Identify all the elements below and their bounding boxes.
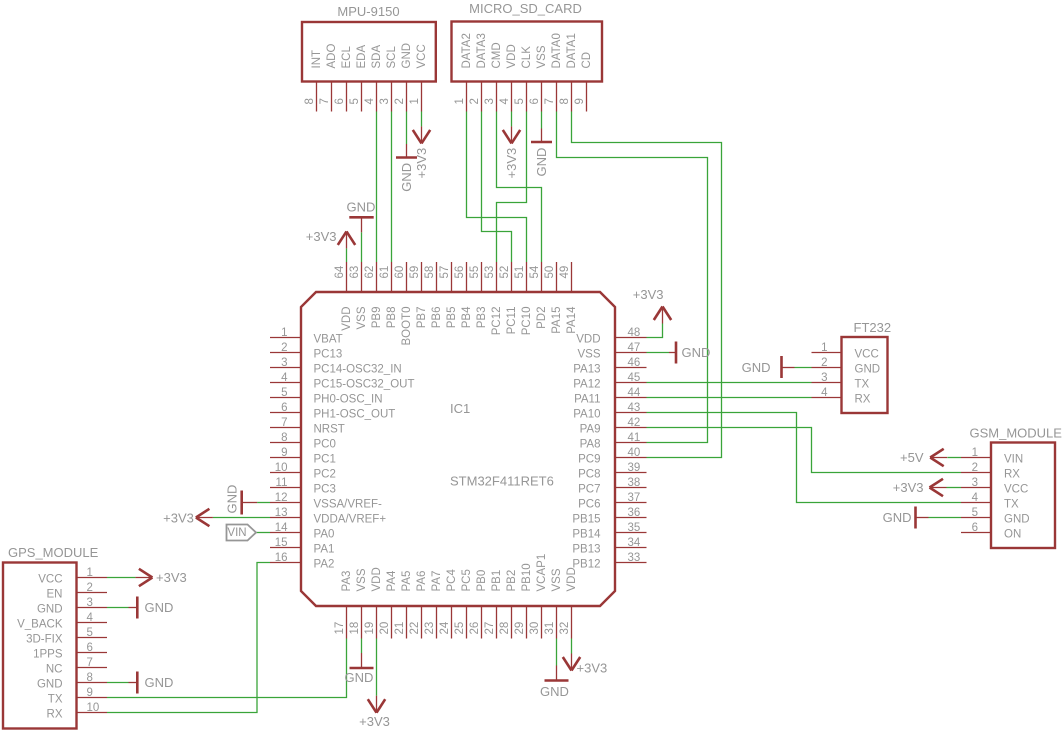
svg-text:GND: GND	[534, 148, 549, 177]
ground GND at IC1 pin63	[347, 200, 376, 233]
svg-text:MPU-9150: MPU-9150	[337, 4, 399, 19]
ground GND at GPS_MODULE pin3	[129, 597, 174, 619]
IC1 pin 27 PB1	[484, 570, 503, 639]
svg-text:41: 41	[628, 432, 641, 444]
svg-text:GSM_MODULE: GSM_MODULE	[970, 426, 1063, 441]
IC1 pin 10 PC2	[270, 462, 336, 481]
svg-text:31: 31	[544, 622, 556, 635]
IC1 pin 39 PC8	[578, 462, 646, 481]
svg-text:PB9: PB9	[371, 307, 383, 329]
svg-text:19: 19	[364, 622, 376, 635]
wire GPS_MODULE pin8 to ground	[107, 682, 129, 684]
svg-text:6: 6	[972, 522, 978, 534]
power +3V3 at IC1 pin13	[163, 509, 213, 526]
svg-text:PA1: PA1	[314, 544, 335, 556]
svg-text:TX: TX	[1004, 499, 1019, 511]
svg-text:6: 6	[87, 642, 93, 654]
IC1 pin 20 PA4	[379, 570, 398, 638]
svg-text:24: 24	[439, 621, 451, 634]
svg-text:GPS_MODULE: GPS_MODULE	[8, 545, 99, 560]
FT232 pin 2 GND	[812, 357, 881, 376]
svg-text:4: 4	[281, 372, 288, 384]
svg-text:4: 4	[499, 98, 511, 105]
svg-text:PA9: PA9	[580, 424, 601, 436]
svg-text:51: 51	[514, 266, 526, 279]
ground GND at IC1 pin12	[225, 485, 258, 515]
svg-text:PB0: PB0	[476, 570, 488, 592]
svg-text:15: 15	[275, 537, 288, 549]
MPU-9150 pin 5 EDA	[349, 45, 368, 112]
wire PA10 IC1 pin43 to GSM_MODULE pin4 TX	[647, 413, 962, 503]
svg-text:PA6: PA6	[416, 571, 428, 592]
svg-text:PC0: PC0	[314, 439, 336, 451]
ground GND at SD pin6	[531, 129, 552, 177]
svg-text:GND: GND	[399, 163, 414, 192]
svg-text:CMD: CMD	[491, 42, 503, 68]
wire PA3 IC1 pin17 to GPS_MODULE pin9 TX	[107, 639, 347, 698]
MICRO_SD_CARD pin 5 CLK	[514, 46, 533, 112]
svg-text:EN: EN	[47, 589, 63, 601]
power +3V3 at IC1 pin48	[633, 287, 671, 324]
IC1 pin 3 PC14-OSC32_IN	[270, 357, 402, 376]
svg-text:GND: GND	[225, 485, 240, 514]
IC1 pin 56 PB4	[454, 262, 473, 328]
svg-text:1: 1	[972, 447, 978, 459]
MICRO_SD_CARD pin 1 DATA2	[454, 33, 473, 111]
svg-text:45: 45	[628, 372, 641, 384]
svg-text:22: 22	[409, 622, 421, 635]
svg-text:PC10: PC10	[521, 307, 533, 336]
wire MPU pin1 to +3V3	[421, 112, 423, 127]
IC1 pin 33 PB12	[572, 552, 646, 571]
IC1 pin 41 PA8	[580, 432, 647, 451]
IC1 pin 34 PB13	[572, 537, 646, 556]
svg-text:NRST: NRST	[314, 424, 345, 436]
IC1 pin 17 PA3	[334, 571, 353, 639]
svg-text:VCC: VCC	[855, 349, 879, 361]
svg-text:TX: TX	[855, 379, 870, 391]
IC1 pin 55 PB3	[469, 262, 488, 328]
svg-text:VDD: VDD	[576, 334, 600, 346]
GPS_MODULE pin 1 VCC	[38, 567, 107, 586]
IC1 pin 52 PC11	[499, 262, 518, 334]
svg-text:RX: RX	[47, 709, 63, 721]
svg-text:PB14: PB14	[572, 529, 601, 541]
svg-text:VDD: VDD	[371, 567, 383, 591]
svg-text:23: 23	[424, 622, 436, 635]
MICRO_SD_CARD pin 4 VDD	[499, 44, 518, 111]
IC1 pin 51 PC10	[514, 262, 533, 335]
svg-text:VSSA/VREF-: VSSA/VREF-	[314, 499, 383, 511]
svg-text:3: 3	[87, 597, 93, 609]
svg-text:PB10: PB10	[521, 563, 533, 591]
svg-text:GND: GND	[145, 600, 174, 615]
node VIN flag at IC1 pin14	[227, 525, 257, 541]
svg-text:8: 8	[304, 98, 316, 104]
svg-text:14: 14	[275, 522, 288, 534]
svg-text:38: 38	[628, 477, 641, 489]
svg-text:GND: GND	[401, 43, 413, 69]
svg-text:VSS: VSS	[536, 45, 548, 68]
svg-text:8: 8	[281, 432, 287, 444]
MICRO_SD_CARD pin 3 CMD	[484, 42, 503, 111]
svg-text:3: 3	[379, 98, 391, 104]
svg-text:49: 49	[559, 266, 571, 279]
svg-text:+3V3: +3V3	[359, 714, 390, 729]
IC1 pin 2 PC13	[270, 342, 342, 361]
svg-text:16: 16	[275, 552, 288, 564]
wire IC1 pin18 to ground	[361, 639, 363, 654]
IC1 pin 40 PC9	[578, 447, 646, 466]
wire DATA3 SD pin2 to IC1 pin52	[482, 112, 512, 263]
svg-text:1: 1	[87, 567, 93, 579]
IC1 pin 43 PA10	[573, 402, 646, 421]
svg-text:1: 1	[409, 98, 421, 104]
svg-text:33: 33	[628, 552, 641, 564]
svg-text:PA14: PA14	[566, 306, 578, 334]
connector MPU-9150 body	[302, 4, 436, 82]
power +3V3 at SD pin4	[503, 126, 520, 178]
svg-text:3: 3	[281, 357, 287, 369]
IC1 pin 7 NRST	[270, 417, 345, 436]
svg-text:+3V3: +3V3	[577, 661, 608, 676]
GPS_MODULE pin 8 GND	[37, 672, 107, 691]
svg-text:PC15-OSC32_OUT: PC15-OSC32_OUT	[314, 379, 415, 391]
svg-text:DATA3: DATA3	[476, 33, 488, 68]
wire PA12 IC1 pin45 to FT232 pin3	[647, 382, 812, 384]
svg-text:PA10: PA10	[573, 409, 600, 421]
IC1 pin 22 PA6	[409, 571, 428, 639]
IC1 pin 58 PB6	[424, 262, 443, 328]
svg-text:PB7: PB7	[416, 307, 428, 329]
svg-text:PC6: PC6	[578, 499, 600, 511]
svg-text:+3V3: +3V3	[504, 148, 519, 179]
IC1 pin 63 VSS	[349, 262, 368, 330]
svg-text:57: 57	[439, 266, 451, 279]
svg-text:20: 20	[379, 622, 391, 635]
svg-text:18: 18	[349, 622, 361, 635]
IC1 pin 14 PA0	[270, 522, 334, 541]
IC1 pin 28 PB2	[499, 570, 518, 639]
svg-text:PC12: PC12	[491, 307, 503, 336]
svg-text:GND: GND	[37, 604, 63, 616]
wire FT232 pin2 to ground	[795, 367, 812, 369]
svg-text:1: 1	[454, 98, 466, 104]
connector GSM_MODULE body	[970, 426, 1063, 549]
svg-text:CLK: CLK	[521, 46, 533, 69]
svg-text:PB5: PB5	[446, 307, 458, 329]
svg-text:PA15: PA15	[551, 307, 563, 334]
svg-text:60: 60	[394, 266, 406, 279]
wire SCL MPU pin3 to IC1 pin61	[391, 112, 393, 263]
svg-text:GND: GND	[682, 345, 711, 360]
svg-text:4: 4	[87, 612, 94, 624]
svg-text:GND: GND	[742, 360, 771, 375]
wire CMD SD pin3 to IC1 pin54	[497, 112, 542, 263]
IC1 pin 1 VBAT	[270, 327, 343, 346]
svg-text:VDD: VDD	[341, 307, 353, 331]
svg-text:5: 5	[281, 387, 287, 399]
GPS_MODULE pin 5 3D-FIX	[26, 627, 107, 646]
svg-text:47: 47	[628, 342, 641, 354]
svg-text:PA13: PA13	[573, 364, 600, 376]
wire GSM_MODULE pin1 to +5V	[947, 457, 961, 459]
IC1 pin 26 PB0	[469, 570, 488, 639]
ground GND at IC1 pin47	[669, 342, 710, 364]
svg-text:58: 58	[424, 266, 436, 279]
IC1 pin 46 PA13	[573, 357, 646, 376]
svg-text:9: 9	[87, 687, 93, 699]
GPS_MODULE pin 10 RX	[47, 702, 107, 721]
svg-text:EDA: EDA	[356, 45, 368, 69]
svg-text:39: 39	[628, 462, 641, 474]
svg-text:PC11: PC11	[506, 307, 518, 335]
wire IC1 pin32 to +3V3	[571, 639, 573, 654]
svg-text:10: 10	[275, 462, 288, 474]
IC1 pin 11 PC3	[270, 477, 336, 496]
svg-text:35: 35	[628, 522, 641, 534]
svg-text:PH0-OSC_IN: PH0-OSC_IN	[314, 394, 383, 406]
svg-text:7: 7	[281, 417, 287, 429]
svg-text:ADO: ADO	[326, 44, 338, 69]
svg-text:DATA2: DATA2	[461, 33, 473, 68]
svg-text:9: 9	[574, 98, 586, 104]
svg-text:PB8: PB8	[386, 307, 398, 329]
power +5V at GSM_MODULE pin1	[900, 449, 947, 466]
svg-text:PC3: PC3	[314, 484, 336, 496]
wire IC1 pin31 to ground	[556, 639, 558, 666]
svg-text:VDDA/VREF+: VDDA/VREF+	[314, 514, 387, 526]
svg-text:PC2: PC2	[314, 469, 336, 481]
svg-text:+3V3: +3V3	[156, 570, 187, 585]
IC1 pin 54 PD2	[529, 262, 548, 329]
ground GND at MPU pin2	[396, 144, 417, 192]
svg-text:55: 55	[469, 266, 481, 279]
svg-text:MICRO_SD_CARD: MICRO_SD_CARD	[469, 1, 582, 16]
svg-text:3D-FIX: 3D-FIX	[26, 634, 63, 646]
connector GPS_MODULE body	[3, 545, 99, 729]
svg-text:PC9: PC9	[578, 454, 600, 466]
FT232 pin 4 RX	[812, 387, 871, 406]
svg-text:VDD: VDD	[566, 567, 578, 591]
svg-text:2: 2	[972, 462, 978, 474]
wire SD pin4 to +3V3	[511, 112, 513, 127]
svg-text:43: 43	[628, 402, 641, 414]
svg-text:V_BACK: V_BACK	[17, 619, 63, 631]
svg-text:40: 40	[628, 447, 641, 459]
svg-text:59: 59	[409, 266, 421, 279]
MICRO_SD_CARD pin 8 DATA1	[559, 33, 578, 111]
svg-text:2: 2	[394, 98, 406, 104]
wire MPU pin2 to ground	[406, 112, 408, 145]
MICRO_SD_CARD pin 6 VSS	[529, 45, 548, 111]
svg-text:36: 36	[628, 507, 641, 519]
GPS_MODULE pin 3 GND	[37, 597, 107, 616]
svg-text:VCAP1: VCAP1	[536, 554, 548, 592]
FT232 pin 1 VCC	[812, 342, 879, 361]
svg-text:PA0: PA0	[314, 529, 335, 541]
GSM_MODULE pin 1 VIN	[961, 447, 1023, 466]
svg-text:50: 50	[544, 266, 556, 279]
IC1 pin 49 PA14	[559, 262, 578, 334]
wire DATA1 SD pin8 to IC1 pin40	[572, 112, 722, 458]
power +3V3 at IC1 pin32	[563, 654, 607, 676]
IC1 pin 25 PC5	[454, 569, 473, 638]
svg-text:PB15: PB15	[572, 514, 600, 526]
wire CLK SD pin5 to IC1 pin53	[497, 112, 527, 263]
IC1 pin 57 PB5	[439, 262, 458, 328]
IC IC1 STM32F411RET6 body	[301, 292, 615, 606]
svg-text:7: 7	[87, 657, 93, 669]
svg-text:37: 37	[628, 492, 641, 504]
power +3V3 at MPU pin1	[413, 126, 430, 178]
svg-text:28: 28	[499, 622, 511, 635]
ground GND at GSM_MODULE pin5	[883, 507, 929, 529]
svg-text:48: 48	[628, 327, 641, 339]
ground GND at IC1 pin31	[540, 666, 569, 700]
IC1 pin 18 VSS	[349, 568, 368, 638]
wire GPS_MODULE pin3 to ground	[107, 607, 129, 609]
MPU-9150 pin 7 ADO	[319, 44, 338, 112]
svg-text:13: 13	[275, 507, 288, 519]
svg-text:63: 63	[349, 266, 361, 279]
svg-text:5: 5	[87, 627, 93, 639]
svg-text:PA7: PA7	[431, 571, 443, 592]
svg-text:PA2: PA2	[314, 559, 335, 571]
svg-text:PC7: PC7	[578, 484, 600, 496]
IC1 pin 53 PC12	[484, 262, 503, 335]
GSM_MODULE pin 3 VCC	[961, 477, 1028, 496]
svg-text:5: 5	[972, 507, 978, 519]
svg-text:+3V3: +3V3	[893, 480, 924, 495]
svg-text:5: 5	[514, 98, 526, 104]
svg-text:5: 5	[349, 98, 361, 104]
GPS_MODULE pin 2 EN	[47, 582, 107, 601]
svg-text:PA3: PA3	[341, 571, 353, 592]
svg-text:1: 1	[821, 342, 827, 354]
svg-text:3: 3	[484, 98, 496, 104]
IC1 pin 30 VCAP1	[529, 554, 548, 639]
connector MICRO_SD_CARD body	[452, 1, 603, 82]
svg-text:GND: GND	[883, 510, 912, 525]
svg-text:VCC: VCC	[416, 44, 428, 68]
power +3V3 at IC1 pin19	[359, 696, 390, 729]
svg-text:4: 4	[972, 492, 979, 504]
wire GPS_MODULE pin1 to +3V3	[107, 577, 135, 579]
svg-text:46: 46	[628, 357, 641, 369]
svg-text:4: 4	[821, 387, 828, 399]
svg-text:56: 56	[454, 266, 466, 279]
IC1 pin 19 VDD	[364, 567, 383, 638]
svg-text:+3V3: +3V3	[633, 287, 664, 302]
connector FT232 body	[842, 320, 892, 413]
GSM_MODULE pin 2 RX	[961, 462, 1020, 481]
svg-text:PC14-OSC32_IN: PC14-OSC32_IN	[314, 364, 402, 376]
power +3V3 at IC1 pin64	[306, 229, 355, 248]
GSM_MODULE pin 5 GND	[961, 507, 1030, 526]
svg-text:PA8: PA8	[580, 439, 601, 451]
GPS_MODULE pin 6 1PPS	[33, 642, 107, 661]
svg-text:+3V3: +3V3	[306, 229, 337, 244]
IC1 pin 45 PA12	[573, 372, 646, 391]
wire IC1 pin14 to VIN	[256, 532, 270, 534]
svg-text:2: 2	[821, 357, 827, 369]
wire IC1 pin64 to +3V3	[346, 248, 348, 262]
svg-text:ON: ON	[1004, 529, 1021, 541]
IC1 pin 4 PC15-OSC32_OUT	[270, 372, 414, 391]
svg-text:PB2: PB2	[506, 570, 518, 592]
svg-text:PC4: PC4	[446, 569, 458, 592]
IC1 pin 62 PB9	[364, 262, 383, 328]
svg-text:VSS: VSS	[356, 568, 368, 591]
IC1 pin 12 VSSA/VREF-	[270, 492, 382, 511]
svg-text:GND: GND	[1004, 514, 1030, 526]
wire IC1 pin19 to +3V3	[376, 639, 378, 696]
svg-text:PA11: PA11	[574, 394, 600, 406]
svg-text:VSS: VSS	[356, 306, 368, 329]
svg-text:52: 52	[499, 266, 511, 279]
svg-text:17: 17	[334, 622, 346, 635]
svg-text:FT232: FT232	[854, 320, 892, 335]
svg-text:9: 9	[281, 447, 287, 459]
svg-text:NC: NC	[46, 664, 63, 676]
wire SDA MPU pin4 to IC1 pin62	[376, 112, 378, 263]
svg-text:6: 6	[281, 402, 287, 414]
svg-text:PB3: PB3	[476, 307, 488, 329]
svg-text:PB1: PB1	[491, 570, 503, 592]
svg-text:1PPS: 1PPS	[33, 649, 63, 661]
svg-text:2: 2	[281, 342, 287, 354]
GPS_MODULE pin 7 NC	[46, 657, 107, 676]
svg-text:PA4: PA4	[386, 570, 398, 591]
svg-text:PA12: PA12	[573, 379, 600, 391]
MPU-9150 pin 6 ECL	[334, 46, 353, 112]
svg-text:54: 54	[529, 265, 541, 278]
svg-text:PD2: PD2	[536, 307, 548, 329]
wire SD pin6 to ground	[541, 112, 543, 129]
svg-text:DATA0: DATA0	[551, 33, 563, 68]
svg-text:ECL: ECL	[341, 46, 353, 69]
svg-text:GND: GND	[345, 670, 374, 685]
svg-text:GND: GND	[540, 684, 569, 699]
svg-text:6: 6	[529, 98, 541, 104]
IC1 pin 8 PC0	[270, 432, 336, 451]
svg-text:VCC: VCC	[1004, 484, 1028, 496]
svg-text:4: 4	[364, 98, 376, 105]
IC1 pin 23 PA7	[424, 571, 443, 639]
GSM_MODULE pin 6 ON	[961, 522, 1021, 541]
svg-text:+3V3: +3V3	[163, 511, 194, 526]
svg-text:GND: GND	[855, 364, 881, 376]
svg-text:8: 8	[87, 672, 93, 684]
IC1 pin 16 PA2	[270, 552, 334, 571]
MICRO_SD_CARD pin 2 DATA3	[469, 33, 488, 111]
IC1 pin 35 PB14	[572, 522, 646, 541]
IC1 pin 31 VSS	[544, 568, 563, 638]
ground GND at FT232 pin2	[742, 356, 795, 378]
wire GSM_MODULE pin5 to ground	[929, 517, 962, 519]
svg-text:25: 25	[454, 622, 466, 635]
IC1 pin 15 PA1	[270, 537, 334, 556]
svg-text:34: 34	[628, 537, 641, 549]
svg-text:12: 12	[275, 492, 288, 504]
svg-text:STM32F411RET6: STM32F411RET6	[450, 474, 554, 489]
wire IC1 pin48 to +3V3	[647, 324, 663, 338]
svg-text:3: 3	[821, 372, 827, 384]
svg-text:VIN: VIN	[227, 527, 246, 539]
svg-text:27: 27	[484, 622, 496, 635]
svg-text:53: 53	[484, 266, 496, 279]
